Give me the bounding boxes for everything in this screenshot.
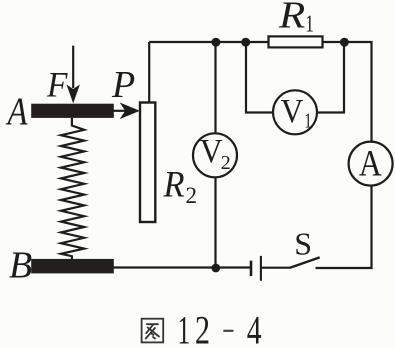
svg-text:R: R xyxy=(163,164,185,205)
wire V1 right branch xyxy=(318,42,344,113)
node dot (right of R1) xyxy=(340,38,349,47)
svg-text:A: A xyxy=(359,144,382,183)
svg-text:1: 1 xyxy=(177,309,190,348)
svg-text:2: 2 xyxy=(186,183,198,208)
node dot bottom xyxy=(211,264,220,273)
rheostat R2 xyxy=(140,103,155,223)
caption glyph 图 xyxy=(142,319,164,343)
svg-text:2: 2 xyxy=(195,307,210,348)
spring xyxy=(61,118,84,260)
battery cell xyxy=(251,256,261,281)
wire battery to switch xyxy=(261,267,291,269)
svg-text:F: F xyxy=(46,64,68,104)
force arrow F xyxy=(68,46,79,102)
svg-text:A: A xyxy=(6,89,29,132)
wire bottom rail left xyxy=(113,266,251,268)
switch S lever xyxy=(290,257,320,267)
svg-text:R: R xyxy=(278,0,306,36)
svg-text:2: 2 xyxy=(221,152,231,174)
wire top rail right xyxy=(323,42,372,142)
svg-text:4: 4 xyxy=(247,308,262,348)
wire V2 bottom branch xyxy=(214,178,216,268)
svg-text:1: 1 xyxy=(305,9,314,37)
node dot left (V2 branch) xyxy=(211,38,220,47)
voltmeter V2 xyxy=(193,133,237,177)
resistor R1 xyxy=(269,36,323,47)
wire V2 top branch xyxy=(214,42,216,133)
svg-text:S: S xyxy=(294,225,312,261)
wire V1 left branch xyxy=(246,42,272,113)
node dot (V1 left branch) xyxy=(241,38,250,47)
wire top rail xyxy=(149,41,268,43)
voltmeter V1 xyxy=(273,90,317,134)
svg-text:V: V xyxy=(281,93,304,130)
pointer arrow P xyxy=(113,104,139,118)
svg-text:1: 1 xyxy=(304,109,312,132)
plate B xyxy=(31,259,114,274)
svg-text:V: V xyxy=(200,133,223,170)
wire R2 top to rail xyxy=(148,42,150,102)
svg-text:P: P xyxy=(111,64,135,106)
wire ammeter bottom xyxy=(316,186,372,269)
plate A xyxy=(31,104,114,118)
svg-text:B: B xyxy=(9,245,32,287)
ammeter A xyxy=(349,142,393,186)
